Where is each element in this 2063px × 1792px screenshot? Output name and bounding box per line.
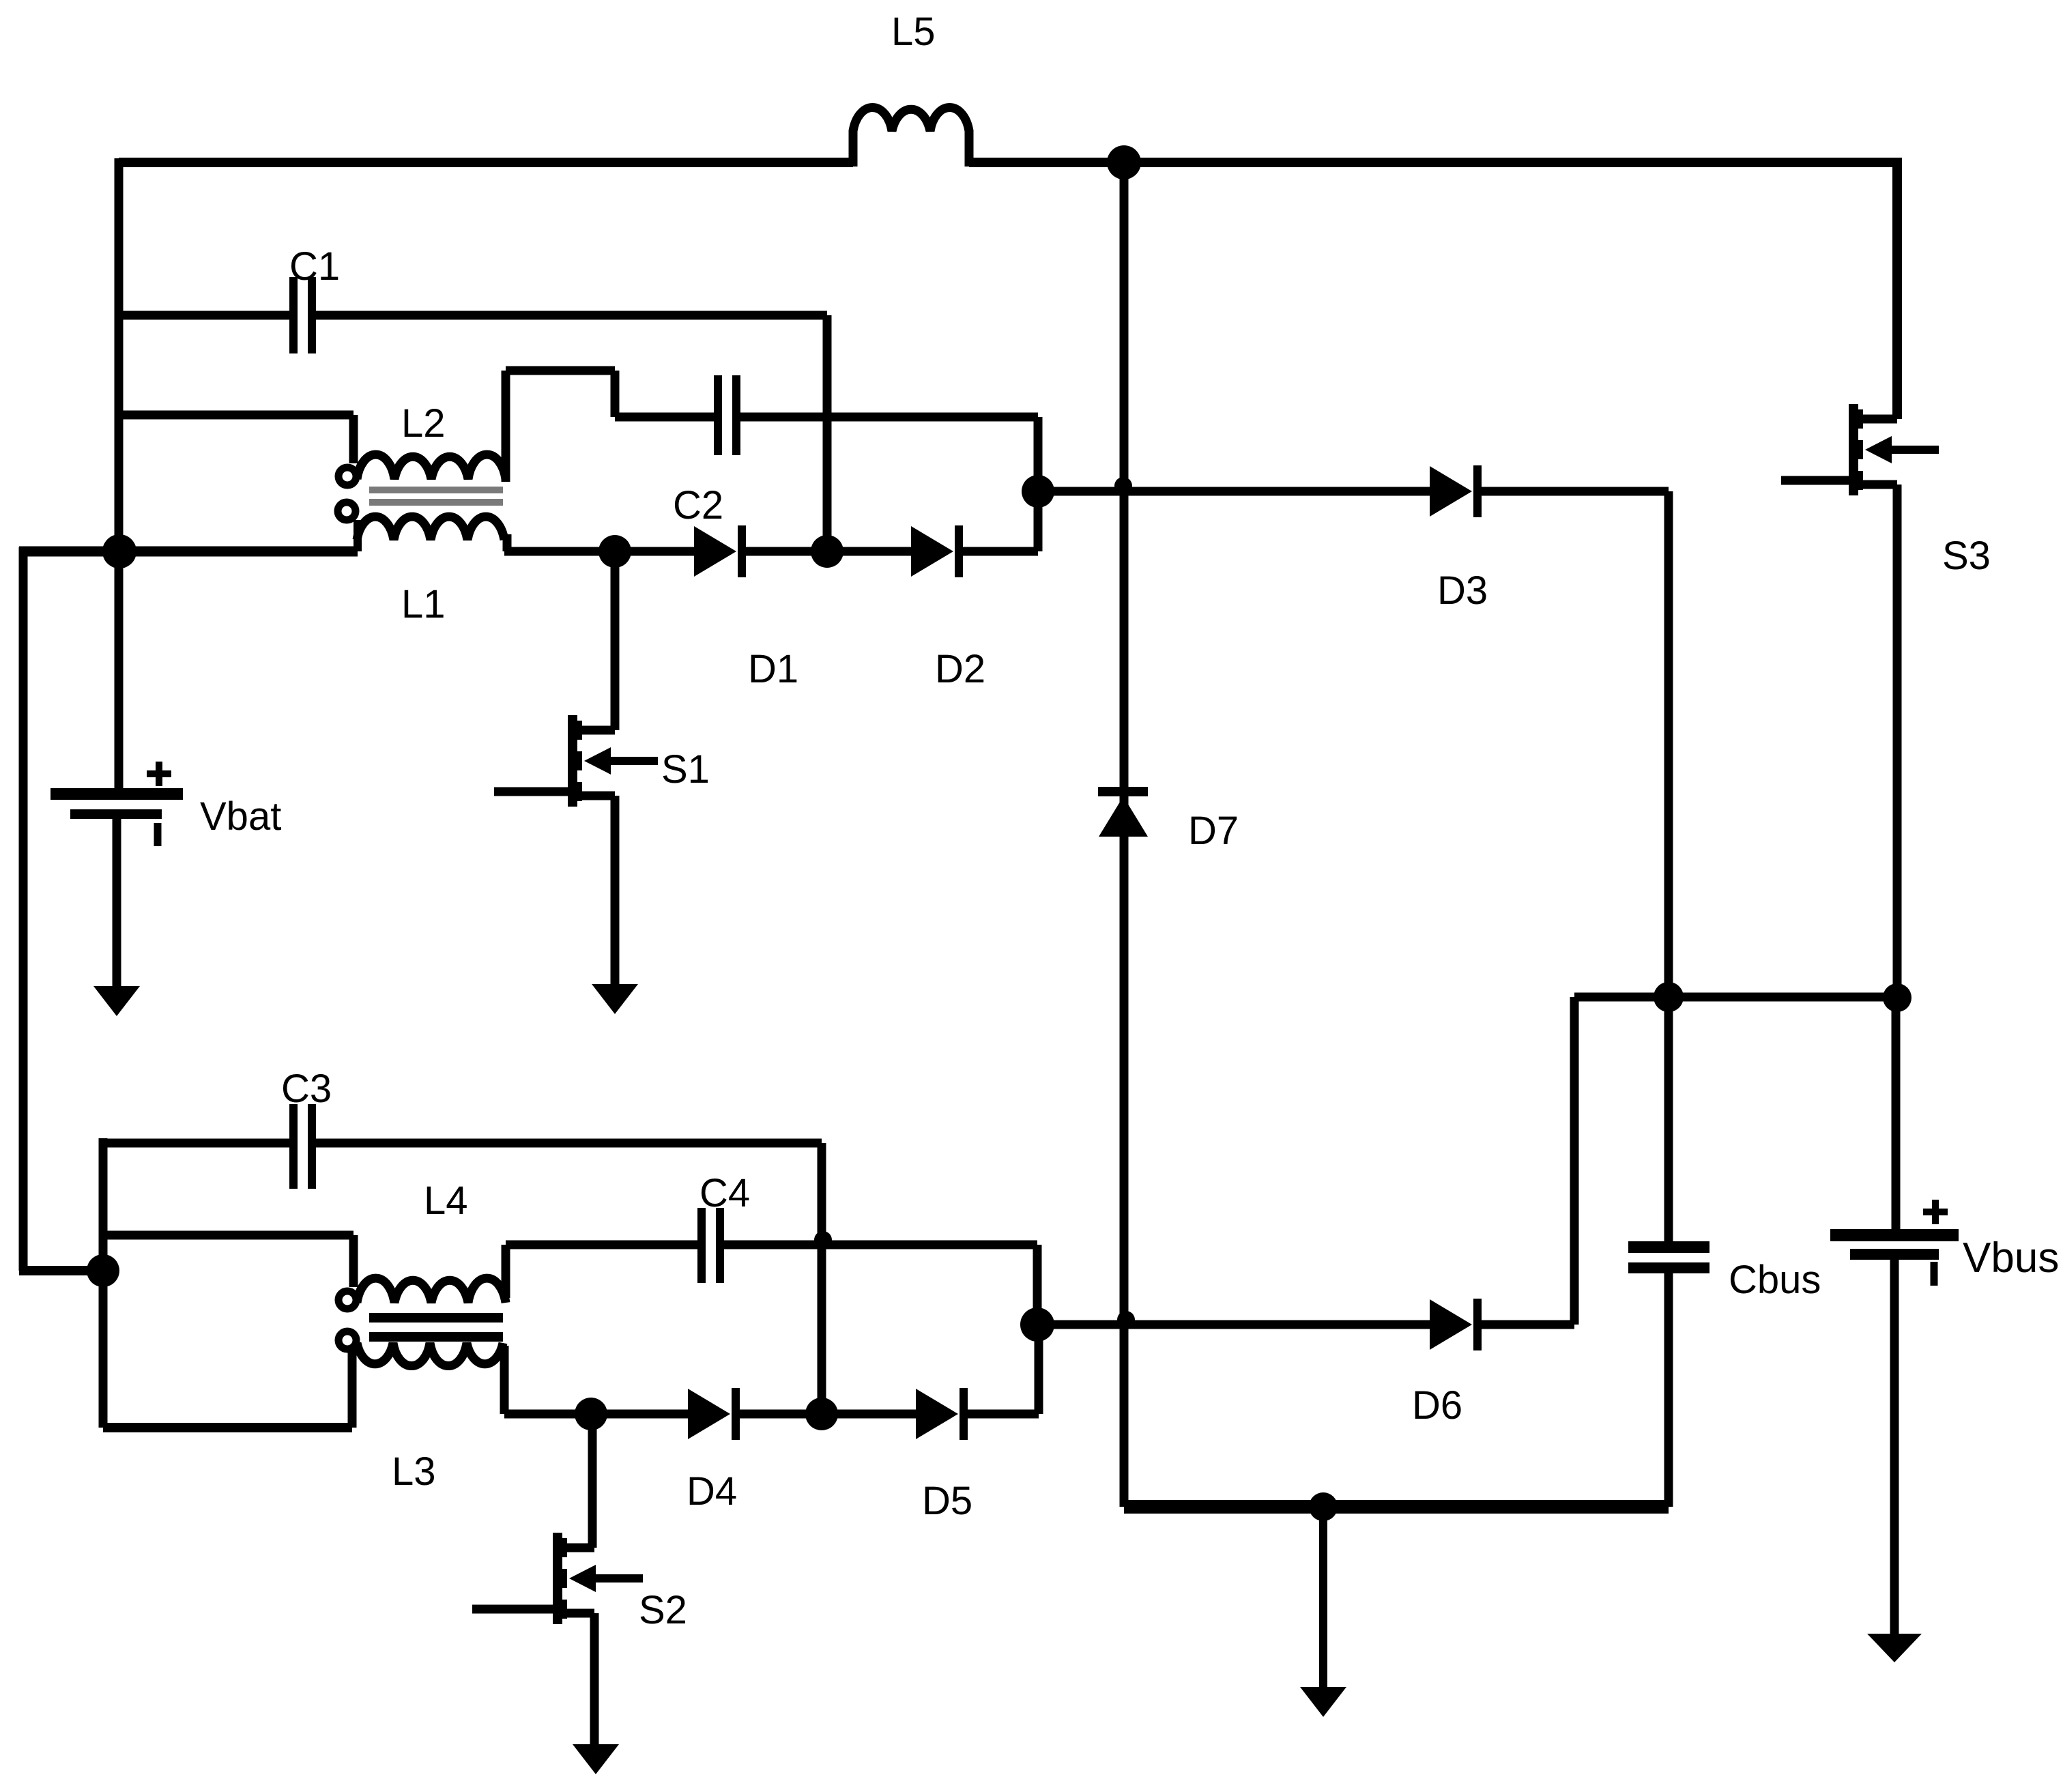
wire S3 drain drop — [1892, 158, 1902, 419]
node C3 drop junction — [805, 1398, 838, 1430]
svg-text:C2: C2 — [673, 483, 723, 528]
wire D2 output — [963, 547, 1038, 556]
transformer core L3-L4 — [369, 1313, 503, 1323]
svg-text:L4: L4 — [424, 1179, 468, 1223]
wire C1 row — [119, 311, 291, 320]
node lower-left junction — [87, 1254, 119, 1287]
node Vbus junction — [1883, 983, 1911, 1012]
ground S2 — [573, 1744, 619, 1774]
transformer core L1-L2 — [369, 487, 503, 493]
wire Vbus feed — [1892, 998, 1901, 1232]
capacitor C4 — [697, 1208, 706, 1283]
svg-text:C4: C4 — [699, 1171, 750, 1215]
diode D4 — [688, 1389, 730, 1439]
wire C4 output — [724, 1241, 1037, 1249]
bar — [568, 715, 577, 807]
wire to D3 — [1038, 487, 1430, 496]
diode D5 — [916, 1389, 958, 1439]
wire battery row — [19, 547, 358, 557]
wire D5 output — [968, 1410, 1039, 1419]
ground bottom — [1300, 1687, 1346, 1717]
diode D6 — [1430, 1299, 1472, 1350]
svg-text:S1: S1 — [661, 747, 710, 792]
node Cbus junction — [1654, 982, 1684, 1012]
wire C3 row — [103, 1139, 291, 1148]
capacitor C2 — [714, 375, 722, 455]
ground S1 — [592, 984, 638, 1014]
node C1 drop junction — [811, 535, 843, 568]
diode D7 — [1098, 787, 1148, 796]
wire lower-left loop — [99, 1271, 108, 1428]
svg-text:D4: D4 — [687, 1469, 737, 1514]
svg-text:L1: L1 — [401, 582, 446, 626]
wire D6 output — [1482, 1320, 1574, 1329]
transformer winding L2 — [338, 467, 356, 485]
svg-text:D6: D6 — [1412, 1383, 1462, 1428]
battery Vbus — [1830, 1229, 1959, 1241]
wire top bus right — [969, 158, 1897, 167]
wire C4 row — [506, 1241, 697, 1249]
svg-text:D7: D7 — [1188, 809, 1239, 853]
diode D3 — [1430, 466, 1472, 517]
node S2 drain junction — [575, 1398, 607, 1430]
svg-text:C3: C3 — [281, 1067, 332, 1111]
svg-text:Cbus: Cbus — [1729, 1258, 1821, 1302]
wire C2 output — [740, 413, 1038, 422]
node C4 crossing — [814, 1231, 832, 1249]
node S1 drain junction — [598, 535, 631, 568]
transformer winding L1 — [338, 502, 356, 520]
wire to D6 — [1037, 1320, 1430, 1329]
svg-text:Vbat: Vbat — [200, 794, 281, 839]
node top junction — [1107, 145, 1141, 179]
wire L2 feed — [119, 411, 354, 420]
capacitor C1 — [289, 277, 298, 353]
wire C1 output drop — [823, 315, 832, 551]
wire bottom bus — [1124, 1500, 1669, 1514]
node bottom ground junction — [1309, 1492, 1338, 1521]
capacitor C3 — [289, 1104, 298, 1189]
svg-text:S2: S2 — [639, 1588, 687, 1632]
ground Vbat — [93, 986, 140, 1016]
svg-text:L3: L3 — [392, 1449, 436, 1494]
node C2-D3 junction — [1022, 475, 1054, 508]
transformer winding L3 — [338, 1331, 356, 1349]
wire L3 output row — [504, 1410, 688, 1419]
node D7 top crossing — [1114, 477, 1132, 495]
transistor S1 — [611, 551, 620, 730]
wire D1-D2 — [746, 547, 911, 556]
bar — [1849, 404, 1858, 495]
node Vbat junction — [102, 534, 136, 568]
diode D1 — [694, 526, 736, 577]
battery Vbat — [115, 551, 124, 788]
capacitor Cbus — [1664, 997, 1673, 1242]
wire L4 feed — [103, 1231, 354, 1240]
transformer winding L4 — [338, 1291, 356, 1309]
svg-text:D5: D5 — [922, 1479, 972, 1523]
diode D7 line — [1120, 162, 1129, 1507]
wire L2 to C2 — [502, 371, 510, 482]
svg-text:S3: S3 — [1942, 534, 1991, 578]
svg-text:Vbus: Vbus — [1963, 1234, 2059, 1282]
svg-text:D3: D3 — [1437, 568, 1488, 613]
svg-text:D1: D1 — [748, 647, 798, 691]
wire S1 source — [611, 796, 620, 984]
wire bus node row — [1574, 993, 1897, 1002]
transistor S2 — [588, 1414, 597, 1548]
diode D2 — [911, 526, 953, 577]
wire S3 source — [1893, 485, 1902, 998]
svg-text:L2: L2 — [401, 401, 446, 446]
wire C3 output drop — [818, 1143, 826, 1414]
inductor L5 — [849, 130, 858, 167]
node C4-D6 junction — [1020, 1307, 1054, 1342]
wire left outer drop — [19, 547, 28, 1271]
wire S2 source — [590, 1613, 599, 1744]
svg-text:C1: C1 — [289, 244, 340, 289]
bar — [553, 1533, 562, 1624]
wire top bus left — [119, 158, 853, 167]
wire left vertical — [115, 158, 124, 551]
node D7 bottom crossing — [1117, 1311, 1135, 1329]
wire L1 to S1 node — [504, 547, 694, 556]
ground Vbus — [1867, 1634, 1922, 1662]
svg-text:L5: L5 — [891, 10, 936, 54]
wire D3 output — [1482, 487, 1669, 496]
wire D4-D5 — [740, 1410, 916, 1419]
svg-text:D2: D2 — [935, 647, 985, 691]
